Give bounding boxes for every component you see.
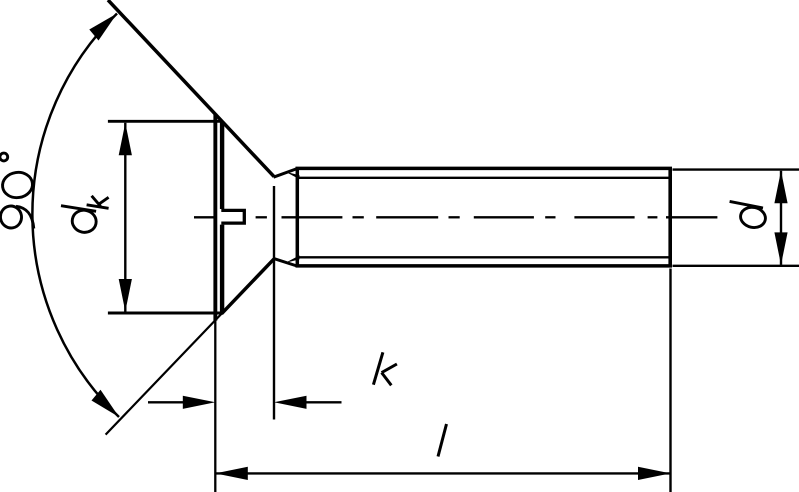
label l — [438, 424, 447, 457]
label d — [730, 201, 768, 229]
slot bottom line upper segment — [220, 121, 224, 209]
fillet transition upper — [274, 169, 298, 178]
label k — [373, 352, 397, 385]
dim d_k extension line bottom — [108, 312, 223, 315]
thread crest line bottom — [296, 264, 673, 268]
head cone face lower — [222, 259, 275, 314]
dim d arrow top — [774, 171, 787, 204]
countersink cone extension line lower (90 deg leg) — [106, 314, 222, 435]
thread runout lower — [286, 255, 300, 262]
dim k line left tail — [148, 401, 184, 403]
dim l arrow left — [215, 467, 248, 480]
dim k arrow right — [274, 396, 307, 409]
arc arrow top — [89, 14, 117, 41]
dim d_k arrow bottom — [119, 279, 132, 312]
thread root line top — [299, 177, 670, 179]
thread root line bottom — [299, 256, 670, 258]
dim d arrow bottom — [774, 232, 787, 265]
dim l arrow right — [638, 467, 671, 480]
arc arrow bottom — [92, 390, 120, 417]
slot bottom line lower segment — [220, 225, 224, 314]
dim d_k arrow top — [119, 123, 132, 156]
dim l extension line right — [669, 269, 671, 492]
dim angle arc 90deg — [32, 14, 119, 418]
centerline axis dash-dot — [194, 216, 717, 218]
dim k arrow left — [183, 396, 216, 409]
shank start vertical — [296, 167, 300, 267]
fillet transition lower — [274, 258, 298, 266]
thread runout upper — [286, 172, 300, 179]
shank end vertical — [668, 167, 672, 267]
dim l line — [215, 472, 670, 474]
countersink cone extension line upper (90 deg leg) — [108, 0, 274, 177]
dim k extension line (head face, also for l) — [214, 316, 216, 492]
label 90deg — [0, 153, 34, 230]
head face line (slot left) — [213, 114, 217, 321]
dim d_k line — [124, 123, 126, 312]
label d_k — [61, 196, 109, 235]
thread crest line top — [296, 167, 673, 171]
slot notch — [221, 210, 244, 223]
dim k line right tail — [305, 401, 342, 403]
dim d line — [780, 171, 782, 265]
dim d extension line top — [673, 168, 799, 170]
dim d_k extension line top — [108, 120, 222, 123]
dim k extension line right — [273, 186, 275, 420]
dim d extension line bottom — [673, 265, 799, 267]
